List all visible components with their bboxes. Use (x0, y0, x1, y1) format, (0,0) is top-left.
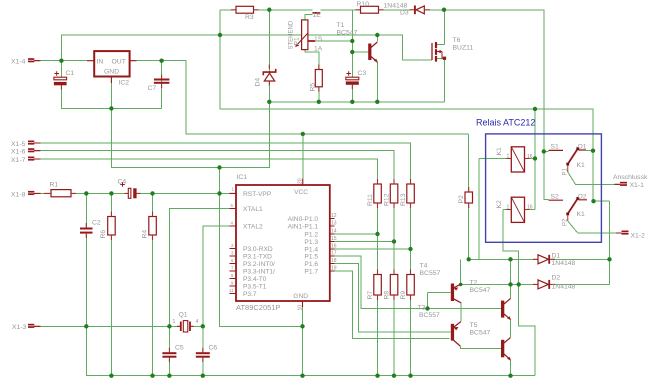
svg-text:Anschlussk: Anschlussk (613, 174, 648, 181)
svg-text:10: 10 (298, 305, 304, 311)
svg-text:S2: S2 (551, 193, 560, 200)
svg-text:1N4148: 1N4148 (552, 283, 576, 290)
svg-text:P1.5: P1.5 (304, 254, 318, 261)
svg-text:X1-3: X1-3 (12, 324, 27, 331)
svg-text:C5: C5 (175, 344, 184, 351)
svg-text:X1-4: X1-4 (11, 58, 26, 65)
svg-text:IC2: IC2 (119, 80, 130, 87)
svg-text:O1: O1 (578, 144, 587, 151)
svg-text:X1-2: X1-2 (631, 232, 646, 239)
svg-text:11: 11 (229, 288, 234, 293)
svg-text:16: 16 (331, 244, 337, 250)
svg-text:P3.1-TXD: P3.1-TXD (243, 254, 272, 261)
svg-text:K1: K1 (577, 211, 586, 218)
svg-text:D4: D4 (255, 78, 262, 87)
svg-text:2: 2 (231, 243, 234, 248)
svg-text:1: 1 (507, 154, 510, 160)
svg-text:XTAL1: XTAL1 (243, 206, 263, 213)
svg-text:XTAL2: XTAL2 (243, 224, 263, 231)
svg-text:C6: C6 (209, 344, 218, 351)
svg-text:BC557: BC557 (419, 312, 440, 319)
svg-text:X1-7: X1-7 (11, 157, 26, 164)
svg-text:Relais ATC212: Relais ATC212 (476, 118, 535, 128)
svg-text:T1: T1 (337, 22, 345, 29)
svg-text:P1.4: P1.4 (304, 247, 318, 254)
svg-text:16: 16 (527, 204, 533, 210)
svg-text:P3.0-RXD: P3.0-RXD (243, 246, 273, 253)
svg-text:15: 15 (331, 236, 337, 242)
svg-text:C4: C4 (118, 179, 127, 186)
svg-text:13: 13 (331, 221, 337, 227)
svg-text:R9: R9 (400, 291, 407, 300)
svg-text:RST-VPP: RST-VPP (243, 191, 272, 198)
svg-text:T6: T6 (453, 37, 461, 44)
svg-text:R6: R6 (100, 230, 107, 239)
svg-text:P3.7: P3.7 (243, 291, 257, 298)
svg-text:P2: P2 (563, 218, 569, 226)
svg-text:R13: R13 (400, 193, 407, 206)
svg-text:S1: S1 (551, 144, 560, 151)
svg-text:P3.2-INT0/: P3.2-INT0/ (243, 261, 275, 268)
svg-text:P1.3: P1.3 (304, 239, 318, 246)
svg-text:1: 1 (232, 187, 235, 192)
svg-text:1: 1 (173, 319, 176, 325)
svg-text:R5: R5 (310, 83, 317, 92)
svg-text:P1.7: P1.7 (304, 269, 318, 276)
svg-text:R12: R12 (384, 193, 391, 206)
svg-text:20: 20 (298, 178, 304, 184)
svg-text:T2: T2 (470, 279, 478, 286)
svg-text:Q1: Q1 (179, 312, 188, 319)
svg-text:P3.3-INT1/: P3.3-INT1/ (243, 269, 275, 276)
svg-text:P1: P1 (563, 167, 569, 175)
svg-text:R11: R11 (367, 194, 374, 206)
svg-text:P1.6: P1.6 (304, 261, 318, 268)
svg-text:12: 12 (331, 213, 337, 219)
svg-text:1S: 1S (314, 36, 323, 43)
svg-text:C1: C1 (66, 70, 75, 77)
svg-text:P2: P2 (458, 195, 465, 204)
svg-text:1E: 1E (313, 12, 322, 19)
svg-text:K1: K1 (496, 147, 503, 156)
svg-text:P3.5-T1: P3.5-T1 (243, 284, 267, 291)
svg-text:T3: T3 (418, 305, 426, 312)
svg-text:BC547: BC547 (337, 29, 358, 36)
svg-text:OUT: OUT (112, 58, 126, 65)
svg-text:GND: GND (104, 69, 119, 76)
svg-text:X1-5: X1-5 (11, 141, 26, 148)
svg-text:T5: T5 (470, 322, 478, 329)
svg-text:4: 4 (196, 319, 199, 325)
svg-text:9: 9 (231, 281, 234, 286)
svg-text:C3: C3 (358, 70, 367, 77)
svg-text:18: 18 (331, 258, 337, 264)
svg-text:6: 6 (231, 258, 234, 263)
svg-text:4: 4 (231, 221, 234, 226)
svg-text:D1: D1 (552, 252, 561, 259)
svg-text:5: 5 (231, 203, 234, 208)
svg-text:VCC: VCC (294, 189, 308, 196)
svg-text:R3: R3 (245, 14, 254, 21)
svg-text:19: 19 (331, 266, 337, 272)
svg-text:1N4148: 1N4148 (552, 260, 576, 267)
svg-text:T4: T4 (420, 262, 428, 269)
svg-text:P1: P1 (294, 37, 301, 46)
svg-text:C7: C7 (148, 85, 157, 92)
svg-text:R8: R8 (384, 291, 391, 300)
svg-text:8: 8 (231, 273, 234, 278)
svg-text:BC557: BC557 (420, 270, 441, 277)
svg-text:AT89C2051P: AT89C2051P (236, 303, 280, 312)
svg-text:BC547: BC547 (470, 287, 491, 294)
svg-text:K1: K1 (577, 162, 586, 169)
svg-text:1: 1 (507, 205, 510, 211)
svg-text:D3: D3 (400, 9, 409, 16)
svg-text:BUZ11: BUZ11 (453, 44, 474, 51)
svg-text:R1: R1 (50, 182, 59, 189)
svg-text:BC547: BC547 (470, 330, 491, 337)
svg-text:IN: IN (97, 58, 104, 65)
svg-text:C2: C2 (92, 219, 101, 226)
svg-text:16: 16 (527, 154, 533, 160)
svg-text:R7: R7 (367, 291, 374, 300)
svg-text:P3.4-T0: P3.4-T0 (243, 276, 267, 283)
svg-text:K2: K2 (496, 200, 503, 209)
svg-text:AIN1-P1.1: AIN1-P1.1 (288, 224, 319, 231)
svg-text:3: 3 (231, 251, 234, 256)
svg-text:O2: O2 (578, 194, 587, 201)
svg-text:14: 14 (331, 229, 337, 235)
svg-text:X1-1: X1-1 (630, 182, 645, 189)
svg-text:R10: R10 (357, 1, 370, 8)
svg-text:P1.2: P1.2 (304, 232, 318, 239)
svg-text:X1-6: X1-6 (11, 149, 26, 156)
svg-text:1A: 1A (314, 46, 323, 53)
svg-text:X1-8: X1-8 (11, 191, 26, 198)
svg-text:AIN0-P1.0: AIN0-P1.0 (288, 216, 319, 223)
svg-text:7: 7 (231, 266, 234, 271)
svg-text:IC1: IC1 (237, 174, 248, 181)
svg-text:GND: GND (293, 293, 308, 300)
svg-text:D2: D2 (552, 274, 561, 281)
svg-text:R4: R4 (141, 230, 148, 239)
svg-text:17: 17 (331, 251, 337, 257)
